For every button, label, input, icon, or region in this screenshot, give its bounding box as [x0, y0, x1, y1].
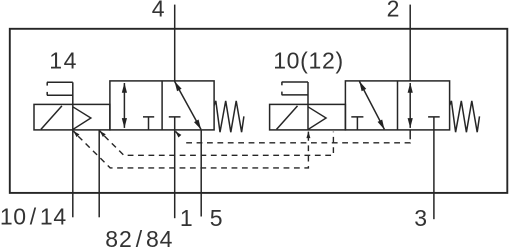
svg-text:14: 14: [49, 47, 78, 73]
valve V2 solenoid diagonal: [277, 106, 298, 129]
valve V2 cell divider: [397, 81, 399, 130]
pilot arrow at node 1 junction: [176, 131, 180, 136]
pilot line (dashed) port 1 to V2 supply: [186, 140, 410, 143]
port 1 line: [174, 130, 176, 218]
valve V1 cell divider: [161, 81, 163, 130]
pilot line (dashed) port 10/14 to V2 solenoid junction: [78, 136, 308, 168]
valve V1 body: [110, 81, 214, 130]
valve V2 body: [345, 81, 449, 130]
solid stub below port 2 junction: [409, 131, 411, 140]
valve V2 blocked port T (left cell): [351, 117, 363, 130]
port 2 line: [409, 5, 411, 81]
svg-text:1: 1: [180, 205, 193, 231]
port 5 line: [200, 130, 202, 217]
valve V2 solenoid divider: [307, 104, 309, 129]
pilot line (dashed) port 82/84 to V2 pilot: [104, 132, 333, 156]
valve V2 pilot triangle: [308, 107, 326, 130]
svg-text:4: 4: [152, 0, 165, 22]
valve V2 flow arrow (right cell, 1-2): [409, 83, 411, 128]
valve V1 solenoid divider: [72, 104, 74, 129]
svg-text:82/84: 82/84: [105, 226, 173, 249]
svg-text:10/14: 10/14: [0, 204, 67, 230]
port 3 line: [433, 130, 435, 219]
valve V1 solenoid diagonal: [41, 106, 62, 129]
enclosure border: [10, 29, 508, 193]
svg-text:2: 2: [387, 0, 400, 22]
valve V1 manual override 14: [47, 82, 73, 104]
pilot arrow at node 10/14 junction: [74, 131, 77, 134]
valve V1 flow arrow diagonal (right cell, 4-5): [175, 81, 201, 129]
port 4 line: [174, 5, 176, 81]
valve V2 return spring: [450, 101, 480, 132]
valve V2 solenoid coil box: [270, 104, 346, 129]
valve V2 flow arrow diagonal (left cell, 2-3): [359, 81, 384, 129]
valve V1 solenoid coil box: [34, 104, 110, 129]
valve V2 manual override 10(12): [282, 82, 308, 104]
valve V1 flow arrow (left cell, 1-4): [123, 83, 125, 128]
svg-text:10(12): 10(12): [273, 47, 344, 73]
svg-text:5: 5: [210, 205, 223, 231]
svg-text:3: 3: [414, 205, 427, 231]
port 10/14 line: [72, 130, 74, 217]
port 82/84 line: [98, 130, 100, 217]
valve V1 blocked port T (left cell): [143, 117, 154, 130]
valve V1 blocked port T (right cell, port 1): [169, 117, 181, 130]
valve V1 pilot triangle: [73, 107, 91, 130]
pilot arrow at node 82/84 junction: [100, 131, 103, 134]
valve V2 blocked port T (right cell, port 3): [428, 117, 440, 130]
pilot arrow at V2 solenoid junction: [307, 132, 309, 136]
valve V1 return spring: [214, 101, 244, 132]
